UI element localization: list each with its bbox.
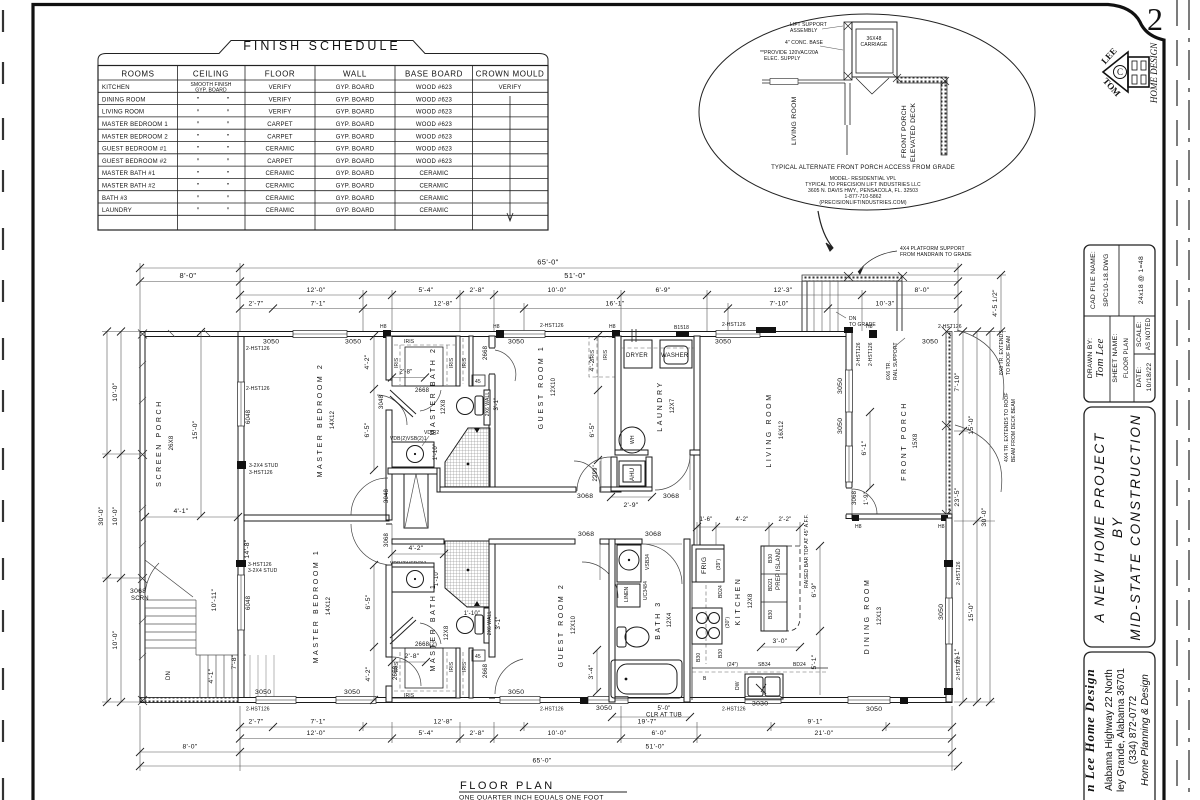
svg-text:MASTER BATH #1: MASTER BATH #1 — [102, 171, 156, 177]
floor plan caption — [459, 780, 627, 800]
svg-text:4X4 TR. EXTENDS TO ROOF: 4X4 TR. EXTENDS TO ROOF — [1004, 392, 1010, 462]
svg-text:FROM HANDRAIN TO GRADE: FROM HANDRAIN TO GRADE — [900, 252, 972, 258]
svg-text:4" CONC. BASE: 4" CONC. BASE — [785, 40, 824, 46]
svg-text:30'-0": 30'-0" — [981, 507, 988, 526]
svg-text:3050: 3050 — [938, 604, 945, 620]
svg-text:LAUNDRY: LAUNDRY — [102, 208, 132, 214]
svg-text:”: ” — [197, 134, 200, 141]
bath2 dims — [597, 336, 599, 390]
svg-text:2-HST126: 2-HST126 — [956, 561, 962, 585]
svg-text:CERAMIC: CERAMIC — [419, 196, 449, 202]
kitchen top dims — [697, 522, 800, 546]
svg-text:10'-0": 10'-0" — [547, 287, 566, 294]
svg-text:1'-10": 1'-10" — [434, 570, 440, 586]
designer box (cut off at bottom) — [1084, 652, 1155, 800]
svg-text:12X4: 12X4 — [667, 612, 673, 627]
svg-text:”: ” — [197, 159, 200, 166]
svg-text:SB34: SB34 — [758, 662, 771, 668]
svg-text:6X6 TR.: 6X6 TR. — [886, 361, 892, 380]
svg-text:(334) 872-0772: (334) 872-0772 — [1128, 695, 1139, 764]
svg-text:3068: 3068 — [384, 532, 390, 547]
svg-text:”: ” — [227, 146, 230, 153]
top dim row A 65ft — [140, 263, 958, 331]
svg-text:B30: B30 — [718, 649, 724, 658]
svg-text:H8: H8 — [855, 524, 862, 530]
carriage box — [852, 22, 897, 77]
svg-text:4'-5 1/2": 4'-5 1/2" — [992, 289, 999, 317]
svg-text:14X12: 14X12 — [330, 410, 336, 429]
svg-text:2-HST126: 2-HST126 — [722, 707, 746, 713]
svg-text:2-HST126: 2-HST126 — [856, 342, 862, 366]
dining east wall — [938, 518, 962, 702]
svg-text:FRONT PORCH: FRONT PORCH — [901, 105, 908, 158]
svg-text:(PRECISIONLIFTINDUSTRIES.COM): (PRECISIONLIFTINDUSTRIES.COM) — [819, 200, 907, 206]
svg-text:8'-0": 8'-0" — [180, 271, 197, 280]
svg-text:BASE BOARD: BASE BOARD — [405, 70, 463, 79]
svg-text:MASTER BATH #2: MASTER BATH #2 — [102, 184, 156, 190]
svg-text:4'-2": 4'-2" — [365, 666, 372, 681]
svg-text:”: ” — [227, 208, 230, 215]
svg-text:DRAWN BY:: DRAWN BY: — [1087, 338, 1094, 379]
svg-text:2'-9": 2'-9" — [593, 469, 599, 482]
svg-text:ASSEMBLY: ASSEMBLY — [790, 28, 818, 34]
svg-text:WOOD #623: WOOD #623 — [416, 147, 453, 153]
svg-text:B1518: B1518 — [674, 325, 689, 331]
svg-text:3-2X4 STUD: 3-2X4 STUD — [248, 568, 278, 574]
svg-text:TYPICAL ALTERNATE FRONT PORCH: TYPICAL ALTERNATE FRONT PORCH ACCESS FRO… — [771, 165, 955, 171]
svg-text:1'-6": 1'-6" — [700, 517, 713, 523]
svg-text:26X8: 26X8 — [169, 435, 175, 450]
svg-text:3050: 3050 — [715, 339, 731, 346]
svg-text:”: ” — [197, 97, 200, 104]
svg-text:2668: 2668 — [483, 345, 489, 360]
table grid — [98, 66, 548, 231]
svg-text:IRIS: IRIS — [603, 349, 609, 360]
svg-text:IRIS: IRIS — [404, 339, 415, 345]
master bath 1 — [390, 539, 523, 699]
svg-text:SCREEN PORCH: SCREEN PORCH — [156, 399, 163, 487]
page edge dashed lines right — [1177, 0, 1189, 800]
bath1 dims — [373, 565, 375, 647]
svg-text:CARPET: CARPET — [267, 122, 293, 128]
svg-text:3'-1": 3'-1" — [496, 617, 502, 630]
house bottom wall — [238, 689, 952, 713]
svg-text:BD21: BD21 — [768, 578, 774, 591]
svg-text:DATE:: DATE: — [1136, 366, 1143, 387]
svg-text:3-HST126: 3-HST126 — [249, 470, 273, 476]
svg-text:LIVING ROOM: LIVING ROOM — [102, 110, 144, 116]
svg-text:H8: H8 — [938, 524, 945, 530]
svg-text:GYP. BOARD: GYP. BOARD — [336, 110, 375, 116]
svg-text:12'-0": 12'-0" — [306, 287, 325, 294]
AHU closet — [577, 457, 652, 500]
svg-text:3068: 3068 — [130, 588, 146, 595]
svg-text:HOME DESIGN: HOME DESIGN — [1149, 42, 1159, 104]
svg-text:3050: 3050 — [508, 689, 524, 696]
svg-text:2'-2": 2'-2" — [779, 517, 792, 523]
svg-text:KITCHEN: KITCHEN — [102, 85, 130, 91]
svg-text:(30"): (30") — [725, 617, 731, 628]
vanity — [392, 442, 434, 467]
svg-text:1'-10": 1'-10" — [464, 611, 480, 617]
svg-text:2-HST126: 2-HST126 — [246, 346, 270, 352]
svg-text:3050: 3050 — [255, 689, 271, 696]
header row — [121, 70, 544, 79]
svg-text:16'-1": 16'-1" — [605, 301, 624, 308]
svg-text:CAD FILE NAME:: CAD FILE NAME: — [1090, 251, 1097, 309]
svg-text:2'-8": 2'-8" — [400, 370, 413, 376]
svg-text:3048: 3048 — [379, 394, 385, 409]
svg-text:MASTER BEDROOM 2: MASTER BEDROOM 2 — [102, 134, 168, 140]
wall between bedrooms — [244, 473, 428, 547]
svg-text:BD24: BD24 — [793, 662, 806, 668]
svg-text:14X12: 14X12 — [326, 596, 332, 615]
svg-text:2'-8": 2'-8" — [404, 653, 419, 660]
svg-text:”: ” — [227, 195, 230, 202]
svg-text:3068: 3068 — [663, 493, 679, 500]
project name box — [1084, 407, 1155, 647]
svg-text:CARPET: CARPET — [267, 134, 293, 140]
svg-text:ONE QUARTER INCH EQUALS ONE FO: ONE QUARTER INCH EQUALS ONE FOOT — [459, 795, 604, 800]
svg-text:5'-4": 5'-4" — [418, 730, 433, 737]
svg-text:7'-10": 7'-10" — [954, 372, 961, 391]
svg-text:”: ” — [197, 171, 200, 178]
svg-text:”: ” — [197, 195, 200, 202]
shower — [445, 428, 490, 492]
svg-text:10'-0": 10'-0" — [112, 382, 119, 401]
svg-text:2'-8": 2'-8" — [469, 287, 484, 294]
svg-text:WOOD #623: WOOD #623 — [416, 97, 453, 103]
svg-text:3050: 3050 — [837, 418, 844, 434]
svg-text:12'-8": 12'-8" — [433, 719, 452, 726]
svg-text:IRIS: IRIS — [449, 661, 455, 672]
svg-text:C: C — [1117, 67, 1123, 77]
svg-text:FLOOR PLAN: FLOOR PLAN — [1124, 338, 1130, 378]
diagonal entry wall — [390, 617, 416, 644]
svg-text:10'-0": 10'-0" — [112, 630, 119, 649]
svg-text:12X10: 12X10 — [571, 615, 577, 634]
svg-text:ROOMS: ROOMS — [121, 70, 154, 79]
svg-text:2'-7": 2'-7" — [248, 719, 263, 726]
bath2 dims MB2 side — [373, 336, 375, 389]
svg-text:3068: 3068 — [645, 531, 661, 538]
logo: Tom Lee house emblem — [1099, 42, 1159, 104]
svg-text:MASTER BEDROOM 1: MASTER BEDROOM 1 — [102, 122, 168, 128]
lift post hatched column — [844, 22, 852, 80]
svg-text:LINEN: LINEN — [624, 586, 630, 602]
svg-text:UC3484: UC3484 — [643, 581, 649, 600]
svg-text:MASTER BATH 2: MASTER BATH 2 — [430, 347, 437, 436]
svg-text:6'-1": 6'-1" — [861, 440, 868, 455]
svg-text:”: ” — [197, 208, 200, 215]
svg-text:GUEST BEDROOM #2: GUEST BEDROOM #2 — [102, 159, 167, 165]
svg-text:BD24: BD24 — [718, 585, 724, 598]
svg-text:2-HST126: 2-HST126 — [246, 386, 270, 392]
svg-text:CERAMIC: CERAMIC — [265, 147, 295, 153]
svg-text:FINISH SCHEDULE: FINISH SCHEDULE — [243, 39, 401, 53]
svg-text:VERIFY: VERIFY — [269, 85, 292, 91]
porch stairs — [145, 600, 274, 698]
svg-text:CERAMIC: CERAMIC — [265, 208, 295, 214]
svg-text:TOM: TOM — [1101, 76, 1123, 99]
svg-text:9'-1": 9'-1" — [807, 719, 822, 726]
svg-text:RAISED BAR TOP AT 45" A.F.F.: RAISED BAR TOP AT 45" A.F.F. — [804, 514, 810, 588]
extension verticals top — [139, 263, 141, 331]
shower — [445, 541, 490, 607]
svg-text:VERIFY: VERIFY — [269, 110, 292, 116]
svg-text:6'-1": 6'-1" — [954, 648, 961, 663]
svg-text:IRIS: IRIS — [462, 357, 468, 368]
screen porch walls — [138, 330, 240, 706]
svg-text:12X13: 12X13 — [877, 606, 883, 625]
svg-text:WASHER: WASHER — [661, 353, 689, 359]
svg-text:LIVING ROOM: LIVING ROOM — [791, 96, 798, 145]
svg-text:6048: 6048 — [246, 409, 252, 424]
svg-text:65'-0": 65'-0" — [537, 258, 559, 267]
svg-text:IRIS: IRIS — [462, 661, 468, 672]
svg-text:ELEVATED DECK: ELEVATED DECK — [910, 103, 917, 162]
interior wall: MB2/bath — [351, 336, 421, 702]
svg-text:LAUNDRY: LAUNDRY — [657, 380, 664, 432]
svg-text:7'-8": 7'-8" — [231, 654, 238, 669]
svg-text:CARPET: CARPET — [267, 159, 293, 165]
vanity — [392, 567, 434, 592]
svg-text:2668(2): 2668(2) — [415, 642, 437, 648]
svg-text:CROWN MOULD: CROWN MOULD — [476, 70, 545, 79]
svg-text:DW: DW — [735, 681, 741, 690]
svg-text:3'-1": 3'-1" — [494, 398, 500, 411]
living room dim — [869, 412, 871, 488]
svg-text:AHU: AHU — [630, 468, 636, 481]
svg-text:(24"): (24") — [727, 662, 738, 668]
svg-text:2-HST126: 2-HST126 — [868, 342, 874, 366]
svg-text:WOOD #623: WOOD #623 — [416, 159, 453, 165]
svg-text:3-2X4 STUD: 3-2X4 STUD — [249, 463, 279, 469]
svg-text:GYP. BOARD: GYP. BOARD — [336, 122, 375, 128]
tub clearance — [612, 716, 690, 718]
svg-text:16X12: 16X12 — [779, 420, 785, 439]
svg-text:GUEST ROOM 1: GUEST ROOM 1 — [538, 345, 545, 430]
svg-text:4'-2": 4'-2" — [364, 354, 371, 369]
svg-text:GYP. BOARD: GYP. BOARD — [336, 97, 375, 103]
svg-text:3050: 3050 — [344, 689, 360, 696]
front porch deck — [802, 272, 952, 530]
svg-text:SCRN: SCRN — [131, 596, 149, 602]
svg-text:2-HST126: 2-HST126 — [540, 707, 564, 713]
svg-text:7'-10": 7'-10" — [769, 301, 788, 308]
svg-text:FRONT PORCH: FRONT PORCH — [901, 401, 908, 481]
svg-text:3068: 3068 — [852, 490, 858, 505]
svg-text:45: 45 — [475, 379, 481, 385]
svg-text:CERAMIC: CERAMIC — [265, 171, 295, 177]
living room wall — [762, 80, 845, 83]
svg-text:”: ” — [227, 134, 230, 141]
svg-text:ley Grande, Alabama 36701: ley Grande, Alabama 36701 — [1116, 668, 1127, 792]
svg-text:IRIS: IRIS — [449, 357, 455, 368]
svg-text:2-HST126: 2-HST126 — [540, 323, 564, 329]
svg-text:5'-4": 5'-4" — [418, 287, 433, 294]
bottom dim rows — [140, 706, 958, 771]
bath 3 — [609, 531, 690, 702]
svg-text:B: B — [703, 676, 707, 682]
svg-text:65'-0": 65'-0" — [532, 758, 551, 765]
svg-text:3068: 3068 — [578, 531, 594, 538]
svg-text:SCALE:: SCALE: — [1136, 321, 1143, 347]
svg-text:12X10: 12X10 — [551, 377, 557, 396]
svg-text:IRIS: IRIS — [404, 693, 415, 699]
svg-text:6'-5": 6'-5" — [364, 422, 371, 437]
svg-text:GYP. BOARD: GYP. BOARD — [336, 196, 375, 202]
arrow to plan — [818, 211, 833, 248]
svg-text:MASTER BEDROOM 1: MASTER BEDROOM 1 — [313, 549, 320, 664]
svg-text:2-HST126: 2-HST126 — [246, 707, 270, 713]
svg-text:VDB(2)VSB(2)1: VDB(2)VSB(2)1 — [390, 436, 427, 442]
svg-text:10'-0": 10'-0" — [547, 730, 566, 737]
svg-text:51'-0": 51'-0" — [564, 271, 586, 280]
svg-text:3048: 3048 — [384, 488, 390, 503]
svg-text:19'-7": 19'-7" — [637, 719, 656, 726]
platform support note — [858, 246, 972, 275]
gr2 dims — [596, 650, 598, 692]
svg-text:LIVING ROOM: LIVING ROOM — [766, 392, 773, 467]
svg-text:3050: 3050 — [596, 705, 612, 712]
walk-in closet — [392, 336, 456, 386]
svg-text:CLR AT TUB: CLR AT TUB — [646, 713, 682, 719]
svg-text:4'-1": 4'-1" — [208, 668, 215, 683]
svg-text:3030: 3030 — [752, 701, 768, 708]
svg-text:6'-9": 6'-9" — [655, 287, 670, 294]
svg-text:CEILING: CEILING — [193, 70, 229, 79]
svg-text:GYP. BOARD: GYP. BOARD — [336, 184, 375, 190]
svg-text:2: 2 — [1147, 1, 1163, 37]
svg-text:MASTER BATH 1: MASTER BATH 1 — [430, 583, 437, 672]
svg-text:4'-2": 4'-2" — [408, 545, 423, 552]
svg-text:GYP. BOARD: GYP. BOARD — [336, 171, 375, 177]
svg-text:2'-8": 2'-8" — [469, 730, 484, 737]
svg-text:VSB34: VSB34 — [645, 554, 651, 570]
svg-text:DN: DN — [166, 671, 172, 680]
svg-text:10'-3": 10'-3" — [875, 301, 894, 308]
svg-text:H8: H8 — [380, 324, 387, 330]
svg-text:ELEC. SUPPLY: ELEC. SUPPLY — [764, 56, 801, 62]
house top wall — [238, 322, 962, 352]
roof beam arcs right — [957, 330, 1004, 400]
svg-text:A NEW HOME PROJECT: A NEW HOME PROJECT — [1092, 432, 1107, 624]
svg-text:7'-1": 7'-1" — [310, 719, 325, 726]
svg-text:2X6 WALL: 2X6 WALL — [485, 392, 491, 417]
svg-text:RAIL SUPPORT: RAIL SUPPORT — [893, 342, 899, 380]
svg-text:23'-5": 23'-5" — [954, 487, 961, 506]
svg-text:8'-0": 8'-0" — [914, 287, 929, 294]
toilet — [475, 396, 483, 415]
svg-text:GYP. BOARD: GYP. BOARD — [195, 88, 227, 94]
svg-text:12X8: 12X8 — [441, 399, 447, 414]
svg-text:AS NOTED: AS NOTED — [1146, 317, 1152, 350]
svg-text:CERAMIC: CERAMIC — [265, 196, 295, 202]
svg-text:15'-0": 15'-0" — [968, 415, 975, 434]
svg-text:DINING ROOM: DINING ROOM — [864, 578, 871, 655]
svg-text:7'-1": 7'-1" — [310, 301, 325, 308]
svg-text:15'-0": 15'-0" — [192, 420, 199, 439]
svg-text:GYP. BOARD: GYP. BOARD — [336, 134, 375, 140]
svg-text:FRIG: FRIG — [701, 557, 708, 574]
svg-text:WOOD #623: WOOD #623 — [416, 110, 453, 116]
svg-text:Home Planning & Design: Home Planning & Design — [1140, 674, 1151, 786]
svg-text:12'-0": 12'-0" — [306, 730, 325, 737]
svg-text:Tom Lee: Tom Lee — [1094, 338, 1106, 377]
svg-text:4'-2": 4'-2" — [736, 517, 749, 523]
svg-text:Alabama Highway 22 North: Alabama Highway 22 North — [1104, 669, 1115, 791]
diagonal entry wall — [390, 390, 416, 417]
svg-text:H8: H8 — [609, 324, 616, 330]
svg-text:3050: 3050 — [345, 339, 361, 346]
island dims — [819, 546, 821, 631]
svg-text:”: ” — [227, 171, 230, 178]
left vertical dims — [102, 332, 140, 703]
svg-text:”: ” — [197, 183, 200, 190]
svg-text:TO GRADE: TO GRADE — [849, 322, 876, 328]
svg-text:3050: 3050 — [263, 339, 279, 346]
svg-text:B30: B30 — [768, 610, 774, 619]
closet side walls — [456, 336, 460, 386]
svg-text:TO ROOF BEAM: TO ROOF BEAM — [1006, 336, 1012, 375]
svg-text:12X7: 12X7 — [670, 398, 676, 413]
svg-text:5'-0": 5'-0" — [658, 706, 671, 712]
svg-text:LEE: LEE — [1099, 46, 1118, 66]
svg-text:FLOOR: FLOOR — [265, 70, 296, 79]
svg-text:1'-10": 1'-10" — [433, 444, 439, 460]
svg-text:2'-7": 2'-7" — [248, 301, 263, 308]
svg-text:VERIFY: VERIFY — [269, 97, 292, 103]
svg-text:GYP. BOARD: GYP. BOARD — [336, 159, 375, 165]
svg-text:”: ” — [197, 122, 200, 129]
svg-text:6048: 6048 — [246, 595, 252, 610]
svg-text:4'-2": 4'-2" — [589, 356, 596, 371]
svg-text:30'-0": 30'-0" — [98, 506, 105, 525]
svg-text:2'-9": 2'-9" — [623, 502, 638, 509]
svg-text:n Lee Home Design: n Lee Home Design — [1082, 668, 1097, 792]
svg-text:”: ” — [197, 146, 200, 153]
svg-text:3068: 3068 — [577, 493, 593, 500]
svg-text:4'-1": 4'-1" — [173, 508, 188, 515]
row texts — [102, 85, 168, 214]
svg-text:CERAMIC: CERAMIC — [419, 184, 449, 190]
svg-text:8'-0": 8'-0" — [182, 744, 197, 751]
svg-text:3050: 3050 — [837, 378, 844, 394]
svg-text:3'-4": 3'-4" — [588, 664, 595, 679]
svg-text:BATH #3: BATH #3 — [102, 196, 128, 202]
svg-text:1'-9": 1'-9" — [864, 492, 870, 505]
svg-text:”: ” — [197, 109, 200, 116]
svg-text:6'-9": 6'-9" — [811, 582, 818, 597]
svg-text:2668: 2668 — [483, 663, 489, 678]
svg-text:BEAM FROM DECK BEAM: BEAM FROM DECK BEAM — [1011, 399, 1017, 462]
svg-text:3'-0": 3'-0" — [772, 638, 787, 645]
svg-text:5'-1": 5'-1" — [811, 654, 818, 669]
svg-text:”: ” — [227, 183, 230, 190]
ditto arrow in crown mould column — [509, 96, 511, 220]
svg-text:FLOOR PLAN: FLOOR PLAN — [460, 780, 555, 792]
svg-text:GYP. BOARD: GYP. BOARD — [336, 208, 375, 214]
svg-text:CERAMIC: CERAMIC — [419, 171, 449, 177]
guest room 2 — [489, 531, 618, 667]
svg-text:KITCHEN: KITCHEN — [735, 577, 742, 626]
svg-text:SHEET NAME:: SHEET NAME: — [1112, 333, 1119, 382]
house west wall — [236, 332, 279, 703]
table tab outline — [98, 41, 548, 66]
svg-text:CERAMIC: CERAMIC — [419, 208, 449, 214]
toilet — [475, 615, 483, 634]
